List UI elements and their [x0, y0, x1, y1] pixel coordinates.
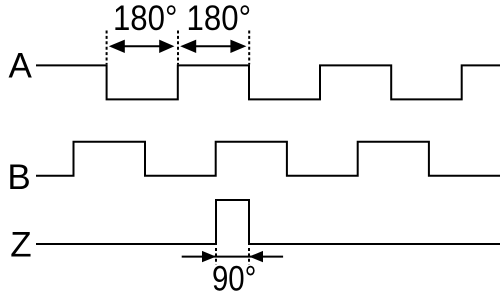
- dimension arrow 180deg left: shaft: [121, 45, 162, 47]
- waveform Z: [36, 200, 500, 244]
- dashed extension line at A fall x=106.6: [106, 31, 108, 65]
- dimension 90deg: left-pointing head at right dash: [249, 251, 263, 262]
- svg-text:A: A: [9, 47, 33, 86]
- waveform B: [36, 142, 500, 176]
- dashed extension line at Z rise x=216: [215, 248, 217, 265]
- dashed extension line at A fall x=249.2: [248, 31, 250, 65]
- dashed extension line at Z fall x=249: [248, 248, 250, 265]
- dashed extension line at A rise x=178: [177, 31, 179, 65]
- dimension 90deg: right-pointing head at left dash: [202, 251, 216, 262]
- dimension arrow 180deg left: right head: [159, 40, 174, 53]
- dimension arrow 180deg right: right head: [230, 40, 246, 53]
- dimension arrow 180deg right: left head: [180, 40, 196, 53]
- dimension 90deg: full line: [182, 256, 283, 258]
- svg-text:180°: 180°: [187, 0, 252, 38]
- dimension arrow 180deg right: shaft: [193, 45, 233, 47]
- svg-text:B: B: [7, 158, 30, 197]
- svg-text:90°: 90°: [212, 260, 257, 299]
- svg-text:Z: Z: [10, 225, 31, 264]
- dimension arrow 180deg left: left head: [109, 40, 125, 53]
- waveform A: [36, 65, 500, 99]
- svg-text:180°: 180°: [113, 0, 178, 38]
